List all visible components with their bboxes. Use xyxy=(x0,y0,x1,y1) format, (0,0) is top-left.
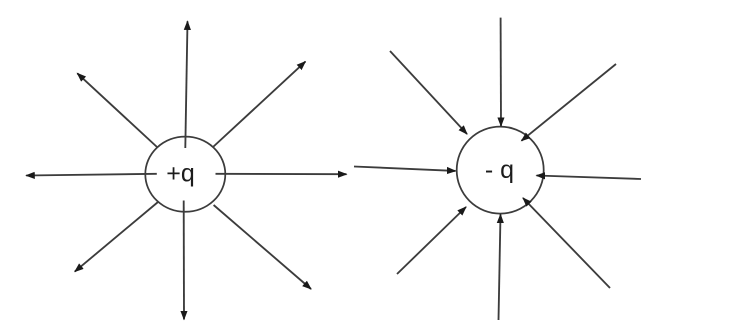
svg-text:- q: - q xyxy=(485,156,514,184)
field line up from +q xyxy=(185,21,187,148)
negative charge circle -q xyxy=(457,127,544,214)
field line into -q from bottom xyxy=(499,215,501,321)
field line into -q from top-left xyxy=(390,51,467,134)
field line into -q from bottom-left xyxy=(397,207,466,274)
field line left from +q xyxy=(26,174,157,176)
field line into -q from top xyxy=(500,18,502,126)
field line down-right from +q xyxy=(214,205,311,289)
field line right from +q xyxy=(216,173,347,175)
field line up-right from +q xyxy=(213,62,305,147)
field line down-left from +q xyxy=(75,202,158,272)
positive charge circle +q xyxy=(145,137,225,212)
svg-text:+q: +q xyxy=(166,160,195,188)
field line down from +q xyxy=(183,201,185,320)
field line up-left from +q xyxy=(77,73,157,147)
field line into -q from top-right xyxy=(522,64,617,141)
field line into -q from left xyxy=(354,167,456,171)
field line into -q from right xyxy=(537,176,642,180)
field line into -q from bottom-right xyxy=(523,198,610,288)
